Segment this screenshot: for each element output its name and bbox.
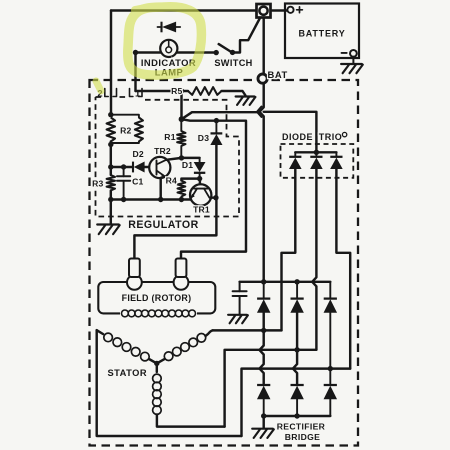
- ground: capacitor: [228, 315, 248, 323]
- bridge top bus from capacitor to column C: [240, 281, 331, 283]
- diode D3 (field discharge): [215, 121, 217, 133]
- wire: bridge bottom bus to ground: [262, 416, 264, 428]
- wire: D1 junction to R4 top: [181, 179, 199, 181]
- diode trio dashed box: [281, 144, 354, 178]
- node F junction dot (field feed node): [179, 116, 185, 122]
- svg-text:TR2: TR2: [154, 146, 171, 156]
- svg-text:FIELD (ROTOR): FIELD (ROTOR): [122, 293, 192, 303]
- stator center phase riser to bridge column B midpoint: [225, 350, 317, 427]
- svg-text:R2: R2: [120, 126, 131, 136]
- stator center coil: [156, 363, 158, 372]
- svg-text:D2: D2: [133, 149, 144, 159]
- wire: R1 bottom node to D1 top: [182, 157, 200, 159]
- battery B1 box: [285, 4, 359, 59]
- bridge column A (top diode, midpoint, bottom diode): [263, 282, 265, 298]
- ground: battery: [341, 64, 363, 73]
- wire: R5 to ground: [222, 91, 246, 96]
- wire: trio diode 2 anode to bridge column B midpoint (hops top bus): [312, 168, 316, 350]
- battery plus terminal: [287, 7, 293, 13]
- svg-text:R3: R3: [92, 179, 103, 189]
- wire: trio diode 3 anode to bridge column C midpoint: [336, 169, 350, 369]
- switch contact dots: [214, 50, 219, 55]
- stator left coil: [97, 330, 103, 334]
- emitter rail wire (R3/C1/TR2/R4 bottoms to TR1 emitter): [111, 198, 191, 200]
- capacitor C1: [123, 167, 125, 200]
- regulator terminal 2 bracket: [105, 89, 117, 97]
- wire: TR2 emitter to rail: [159, 178, 161, 200]
- regulator terminal 1 bracket: [130, 89, 143, 97]
- svg-text:R4: R4: [166, 176, 177, 186]
- battery minus terminal: [342, 52, 347, 54]
- wire: battery minus to ground: [352, 57, 354, 64]
- wire: terminal 1 to R5: [136, 90, 189, 92]
- hop chevron at BAT crossing: [257, 107, 262, 118]
- wire: switch to connector kinked riser: [233, 19, 260, 53]
- green highlighter ring around indicator lamp: [96, 7, 201, 91]
- svg-text:REGULATOR: REGULATOR: [128, 219, 199, 231]
- field winding coil loops: [122, 310, 129, 317]
- svg-text:D1: D1: [182, 160, 193, 170]
- trio diode 3: [335, 152, 337, 156]
- wire: D2 to TR2 base: [144, 166, 149, 168]
- wire: node F to right brush (via right riser): [181, 119, 246, 258]
- svg-text:1: 1: [135, 87, 140, 98]
- wire: D3 anode down through TR1 collector node to field loop wire: [134, 145, 216, 259]
- svg-text:TRIO: TRIO: [319, 132, 343, 142]
- wire: BAT vertical (connector down to rectifier bridge column A): [260, 18, 264, 282]
- bridge column C: [329, 282, 331, 298]
- stator Y junction: [154, 361, 159, 366]
- transistor TR2: [149, 157, 170, 178]
- diode D2 (zener): [135, 162, 145, 172]
- wire: regulator left line R2 top junction to R3 and ground: [110, 142, 112, 225]
- resistor R3: [107, 175, 115, 191]
- svg-text:BAT: BAT: [268, 69, 288, 80]
- outer alternator dashed housing box: [90, 80, 359, 446]
- ground: regulator: [97, 225, 120, 235]
- wire: R2/R3 junction to D2: [111, 166, 132, 168]
- field (rotor) box: [98, 282, 215, 313]
- bridge bottom bus: [264, 415, 331, 417]
- regulator dashed box: [96, 97, 240, 217]
- trio diode 2: [315, 152, 317, 156]
- resistor R1: [177, 131, 185, 146]
- resistor R2 (parallel pair): [107, 118, 115, 142]
- wire: top feed from left line to battery plus: [111, 9, 288, 11]
- ground: R5: [236, 97, 256, 105]
- indicator lamp L1: [160, 40, 177, 57]
- trio diode 1: [294, 152, 296, 156]
- svg-text:TR1: TR1: [193, 205, 210, 215]
- right brush: [174, 275, 189, 290]
- wire: left vertical line from top wire to regulator terminal 2 and R2: [110, 11, 112, 116]
- wire: TR2 collector to R1 bottom node: [166, 158, 181, 160]
- svg-text:R1: R1: [164, 132, 175, 142]
- bridge column B: [296, 282, 298, 298]
- switch SW blade (open): [219, 44, 232, 52]
- svg-text:R5: R5: [171, 86, 182, 96]
- stator right phase wire to bridge column A midpoint: [213, 329, 282, 331]
- diode D1: [199, 158, 201, 179]
- BAT terminal ring on housing box: [258, 74, 267, 83]
- stator right coil: [157, 359, 164, 363]
- diode trio output bus: [295, 151, 336, 153]
- svg-text:DIODE: DIODE: [282, 132, 313, 142]
- output terminal connector (square with ring): [257, 4, 271, 18]
- transistor TR1: [190, 184, 211, 205]
- svg-text:D3: D3: [198, 133, 209, 143]
- wire: node F to diode trio riser (hops BAT line): [182, 112, 257, 119]
- svg-text:SWITCH: SWITCH: [214, 58, 252, 68]
- svg-text:C1: C1: [132, 177, 143, 187]
- wire: node F up to terminal1/R5 wire: [180, 91, 182, 119]
- svg-text:BRIDGE: BRIDGE: [285, 432, 321, 442]
- wire: indicator lamp wire from terminal 1 riser to switch contact: [136, 51, 217, 53]
- svg-text:BATTERY: BATTERY: [298, 28, 345, 38]
- svg-text:STATOR: STATOR: [107, 368, 147, 378]
- capacitor C2: [239, 282, 241, 314]
- stator left phase riser wire to bridge column C midpoint: [242, 369, 351, 436]
- ground: rectifier bridge: [252, 429, 274, 438]
- resistor R5: [188, 87, 222, 95]
- wire: TR1 collector to D3 line junction: [211, 196, 217, 198]
- left brush: [127, 275, 142, 290]
- wire: D1 junction to TR1 base: [199, 179, 201, 185]
- wire: trio diode 1 anode to bridge column A midpoint: [282, 169, 296, 331]
- wire: terminal 1 riser (lamp down to regulator): [134, 53, 136, 92]
- diode above indicator lamp: [158, 22, 181, 33]
- svg-text:RECTIFIER: RECTIFIER: [277, 421, 326, 431]
- resistor R4: [178, 181, 186, 197]
- stator left phase lead: [97, 330, 242, 436]
